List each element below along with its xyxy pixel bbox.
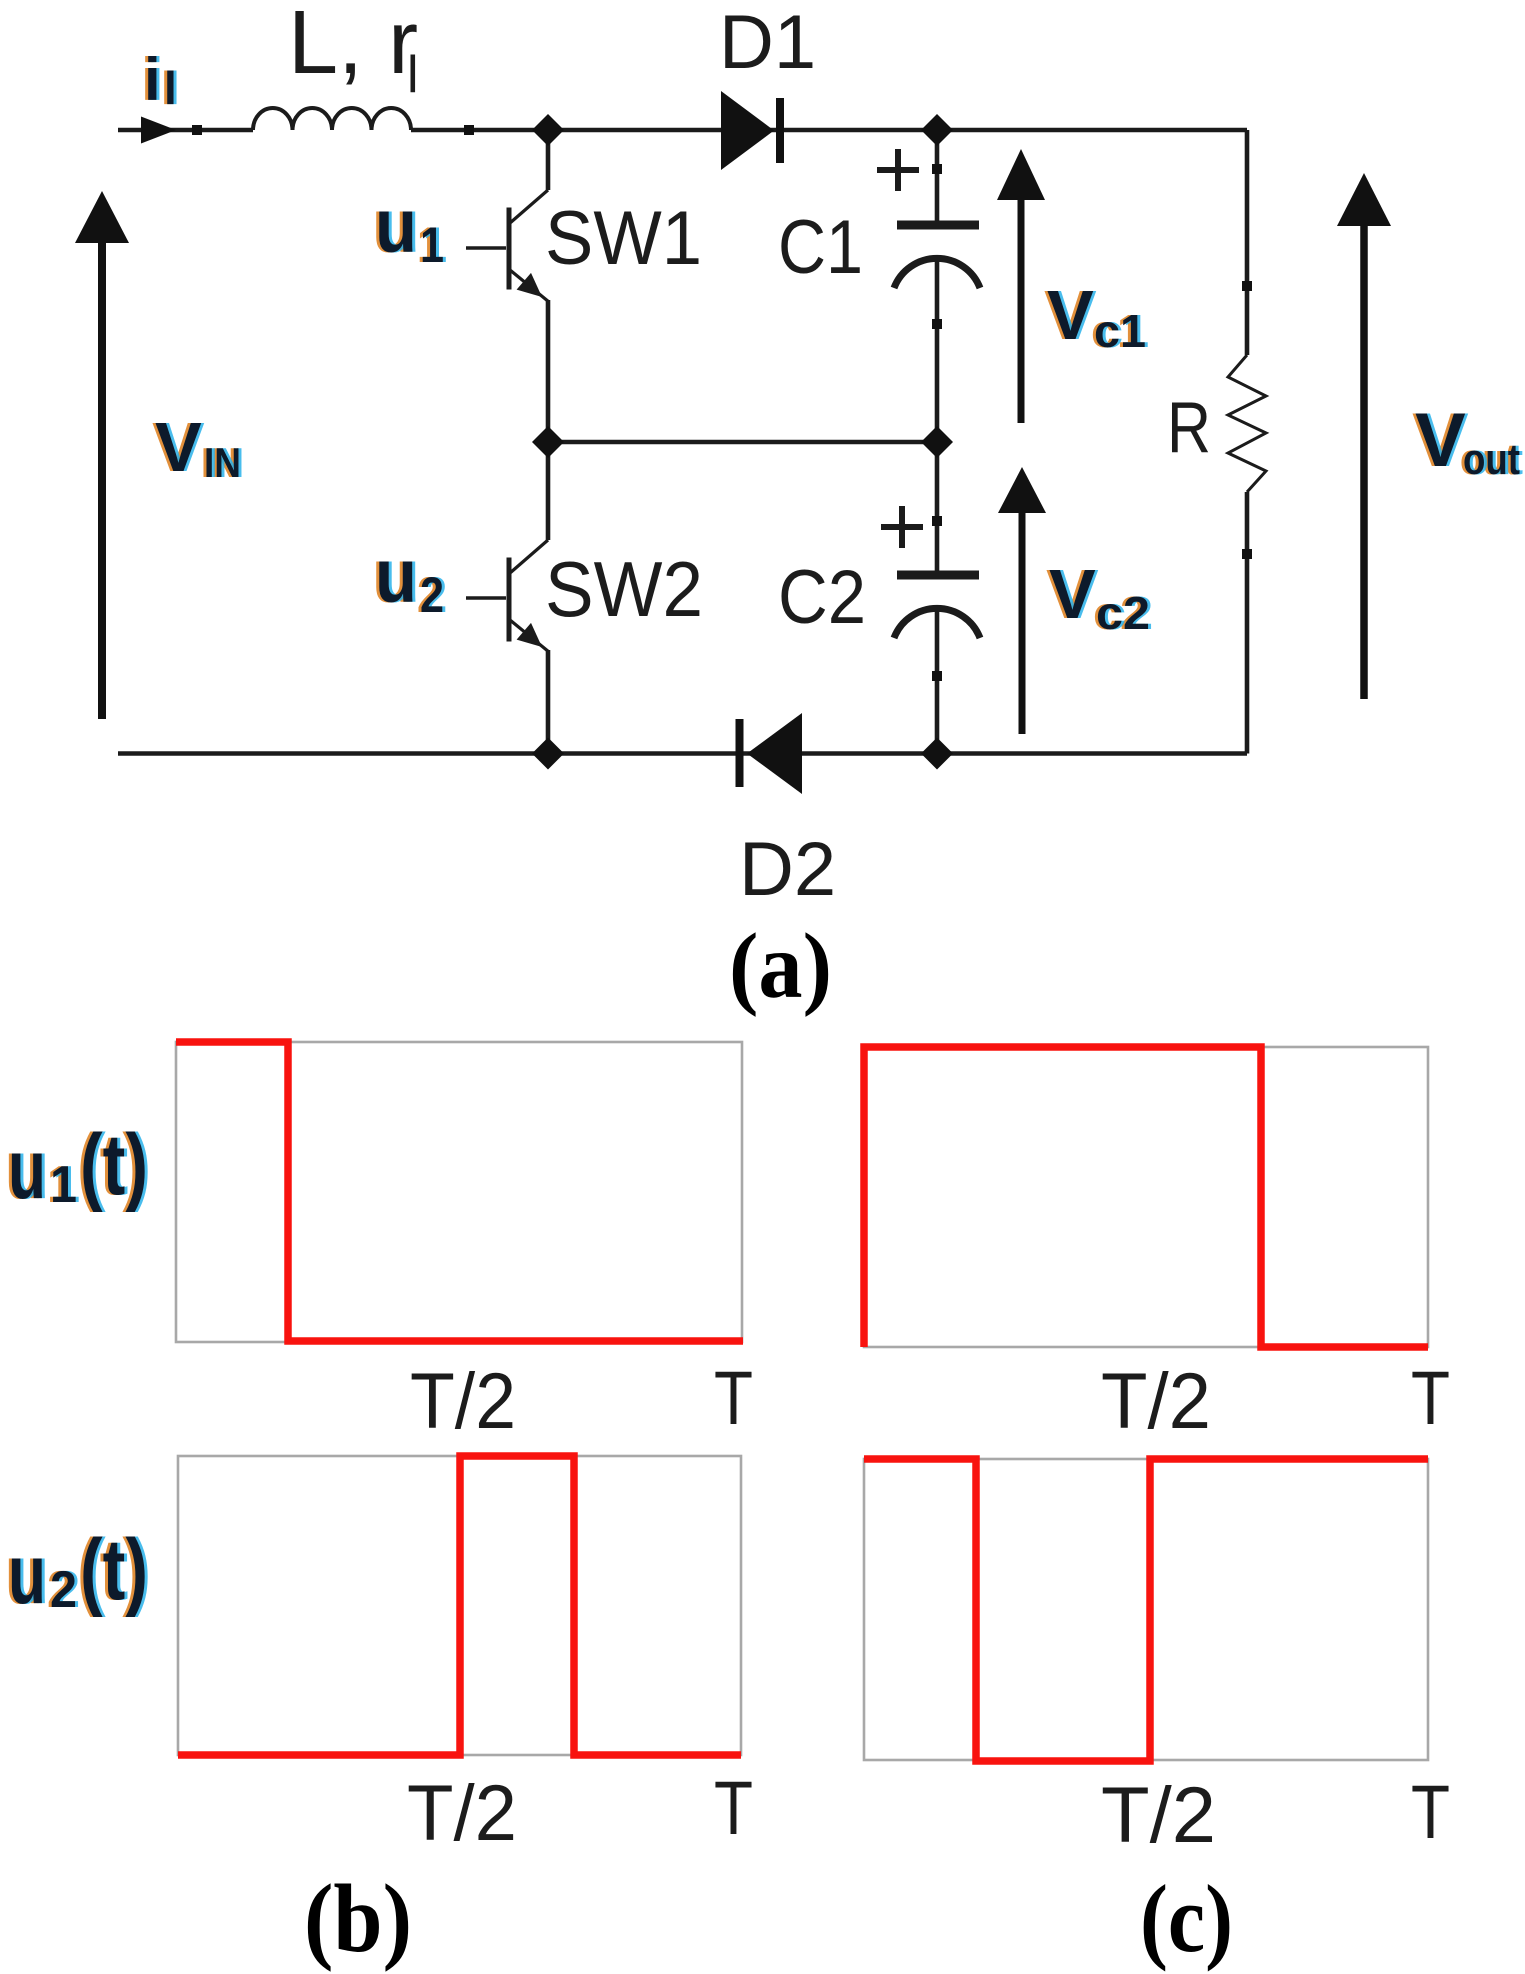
svg-text:l: l [407,46,419,104]
svg-text:T: T [1411,1770,1450,1855]
svg-text:T: T [714,1766,753,1851]
svg-text:T/2: T/2 [1101,1770,1216,1859]
svg-text:(c): (c) [1140,1865,1233,1972]
svg-text:(a): (a) [729,915,832,1018]
svg-text:R: R [1167,388,1211,468]
svg-text:T/2: T/2 [410,1356,516,1445]
svg-text:(b): (b) [304,1865,412,1973]
svg-text:C1: C1 [778,205,863,290]
svg-text:T: T [714,1356,753,1441]
svg-text:D1: D1 [719,0,816,85]
svg-text:SW2: SW2 [545,545,703,633]
svg-text:T/2: T/2 [1101,1356,1211,1445]
svg-text:T: T [1411,1356,1450,1441]
svg-text:T/2: T/2 [407,1768,517,1857]
svg-text:L, r: L, r [288,0,418,93]
svg-text:SW1: SW1 [545,196,702,281]
svg-text:C2: C2 [778,555,866,640]
svg-text:D2: D2 [739,827,836,912]
